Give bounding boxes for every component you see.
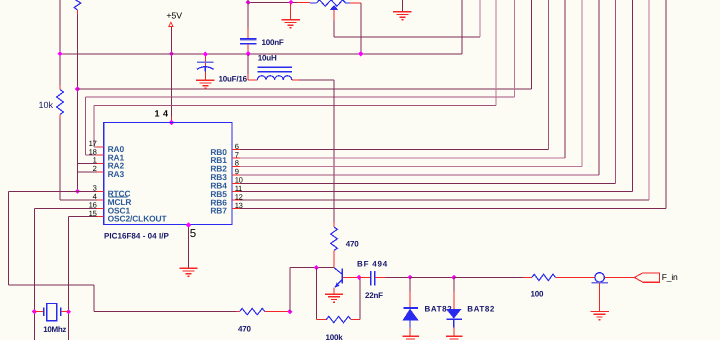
wire RB6 riser bbox=[648, 0, 650, 200]
svg-text:BAT82: BAT82 bbox=[467, 304, 495, 313]
pin 2 RA3 stub bbox=[97, 171, 104, 173]
pin 7 RB1 stub bbox=[232, 157, 240, 159]
wire top rail y=2.4 bbox=[248, 1, 297, 3]
ground for emitter bbox=[325, 293, 343, 295]
wire RB0 riser bbox=[547, 0, 549, 150]
svg-text:2: 2 bbox=[93, 164, 97, 173]
wire pin 17 horizontal bbox=[94, 146, 97, 148]
diode D1 BAT82 (cathode up) bbox=[409, 277, 411, 291]
junction top rail left end (100nF) bbox=[246, 0, 251, 5]
wire V2 x=77.5 down to RTCC row bbox=[77, 14, 79, 191]
wire RB2 horizontal bbox=[240, 165, 582, 167]
wire rail B y=89 bbox=[77, 88, 532, 90]
svg-text:10Mhz: 10Mhz bbox=[43, 325, 66, 334]
wire rail D drop to pin 17 bbox=[93, 105, 95, 147]
pin 13 RB7 stub bbox=[232, 208, 240, 210]
svg-text:BF 494: BF 494 bbox=[357, 260, 388, 269]
svg-text:22nF: 22nF bbox=[365, 291, 383, 300]
resistor R1 10k (vertical on x=60) bbox=[59, 85, 61, 90]
MCLR overline bbox=[109, 196, 128, 198]
svg-text:5: 5 bbox=[190, 228, 196, 240]
junction top rail at ground/pot bbox=[288, 0, 293, 5]
svg-text:470: 470 bbox=[346, 240, 359, 249]
wire pin 2 RA3 horizontal bbox=[78, 171, 97, 173]
junction pin 14 at IC top bbox=[169, 120, 174, 125]
wire base lead bbox=[343, 276, 359, 278]
wire rail B riser x=531.4 bbox=[530, 0, 532, 89]
ground for probe bbox=[590, 311, 608, 313]
wire RB4 horizontal bbox=[240, 182, 616, 184]
junction crystal right bbox=[66, 309, 71, 314]
junction 10uF top at rail A bbox=[203, 52, 208, 57]
wire 100k drop x=316.4 bbox=[315, 268, 317, 320]
ground for 10uF cap bbox=[196, 79, 214, 81]
potentiometer wiper arrow bbox=[330, 5, 339, 10]
wire OSC2 horizontal bbox=[69, 216, 97, 218]
wire V1 10k/MCLR vertical x=60 top segment bbox=[59, 0, 61, 85]
junction collector node x=316.4 bbox=[314, 265, 319, 270]
junction V2 x RTCC row bbox=[75, 189, 80, 194]
svg-text:BAT82: BAT82 bbox=[425, 304, 453, 313]
capacitor C2 10uF/16 electrolytic bbox=[204, 54, 206, 66]
power +5V symbol bbox=[169, 22, 173, 27]
wire RB5 riser bbox=[631, 0, 633, 192]
pin 9 RB3 stub bbox=[232, 174, 240, 176]
junction D2 top bbox=[451, 275, 456, 280]
junction D1 top bbox=[407, 275, 412, 280]
wire rail C riser x=514.7 bbox=[514, 0, 516, 97]
pin 6 RB0 stub bbox=[232, 149, 240, 151]
svg-text:+5V: +5V bbox=[166, 11, 182, 21]
junction +5V wire x rail A bbox=[169, 51, 174, 56]
wire RB6 horizontal bbox=[240, 199, 649, 201]
svg-text:100: 100 bbox=[531, 290, 544, 299]
wire pin 1 RA2 horizontal bbox=[78, 162, 97, 164]
wire RB5 horizontal bbox=[240, 191, 633, 193]
wire RB1 horizontal bbox=[240, 157, 565, 159]
junction V2 x rail B bbox=[75, 86, 80, 91]
wire OSC1 horizontal bbox=[34, 207, 96, 209]
wire OSC1 vertical x=34.4 bbox=[33, 208, 35, 340]
svg-text:470: 470 bbox=[238, 325, 251, 334]
wire OSC2 vertical x=68.5 bbox=[68, 217, 70, 340]
pin 1 RA2 stub bbox=[97, 162, 104, 164]
potentiometer P1 body bbox=[310, 2, 317, 4]
wire pin 5 to ground bbox=[188, 225, 190, 268]
wire RB3 horizontal bbox=[240, 174, 599, 176]
wire vertical x=94 down bbox=[93, 285, 95, 312]
capacitor C1 100nF bbox=[247, 0, 249, 29]
wire left vertical x=8.7 bbox=[8, 191, 10, 284]
wire center vertical x=334 down to 470 resistor bbox=[333, 80, 335, 222]
wire rail C y=96.8 bbox=[86, 96, 515, 98]
junction 470 corner bbox=[287, 309, 292, 314]
wire to D1 bbox=[385, 276, 410, 278]
pin 17 RA0 stub bbox=[97, 146, 104, 148]
wire V1 lower segment to MCLR bbox=[59, 119, 61, 200]
wire D1-D2 segment bbox=[410, 276, 454, 278]
inductor L1 10uH bbox=[257, 76, 291, 80]
resistor R3 470 horizontal bbox=[240, 308, 265, 314]
wire RB2 riser bbox=[581, 0, 583, 166]
svg-text:10uH: 10uH bbox=[258, 54, 277, 63]
wire wiper drop bbox=[333, 10, 335, 21]
wire vertical x=289.9 up to collector node bbox=[289, 268, 291, 312]
junction base node bbox=[357, 275, 362, 280]
pin 8 RB2 stub bbox=[232, 165, 240, 167]
resistor R4 470 vertical bbox=[333, 222, 335, 227]
svg-text:10uF/16: 10uF/16 bbox=[219, 75, 248, 84]
wire inductor output bbox=[292, 79, 299, 81]
wire D2 to 100 resistor bbox=[454, 276, 523, 278]
wire MCLR horizontal y=199.8 bbox=[60, 199, 97, 201]
pin 11 RB5 stub bbox=[232, 191, 240, 193]
wire horizontal y=267.6 to collector bbox=[290, 267, 334, 269]
ground for pin 5 bbox=[179, 267, 197, 269]
pin 18 RA1 stub bbox=[97, 154, 104, 156]
capacitor C3 22nF bbox=[359, 276, 370, 278]
wire RB7 horizontal bbox=[240, 208, 666, 210]
junction crystal left bbox=[32, 309, 37, 314]
resistor R6 100 bbox=[523, 276, 532, 278]
junction pot right at rail A bbox=[358, 51, 363, 56]
wire rail A +5V horizontal y=53.8 bbox=[59, 53, 462, 55]
wire probe to ground bbox=[599, 283, 601, 311]
pin 3 RTCC stub bbox=[97, 190, 104, 192]
wire rail D riser x=495.8 bbox=[495, 0, 497, 105]
wire +5V vertical to pin14 bbox=[171, 27, 173, 117]
wire pin 18 horizontal bbox=[86, 154, 97, 156]
svg-text:100k: 100k bbox=[326, 333, 344, 340]
wire wiper rail riser x=479.9 bbox=[479, 0, 481, 37]
wire RB7 riser bbox=[665, 0, 667, 209]
ground below top rail at x=290.7 bbox=[290, 2, 292, 19]
diode D2 BAT82 (cathode down) bbox=[453, 277, 455, 291]
transistor Q1 BF494 bbox=[341, 269, 343, 284]
wire horizontal y=284.8 bbox=[9, 284, 94, 286]
wire horizontal y=311.6 to 470 resistor bbox=[94, 311, 236, 313]
pin 15 OSC2/CLKOUT stub bbox=[97, 216, 104, 218]
pin 4 MCLR stub bbox=[97, 199, 104, 201]
wire rail C drop to pin 18 bbox=[85, 97, 87, 155]
resistor R5 100k bbox=[316, 319, 326, 321]
ground hanging from top edge at x=402.4 bbox=[401, 0, 403, 12]
wire probe to connector bbox=[604, 276, 634, 278]
crystal X1 10Mhz bbox=[34, 311, 43, 313]
wire pot right terminal drop to rail A bbox=[360, 3, 362, 54]
wire 100k up to base x=360 bbox=[359, 277, 361, 319]
svg-text:10k: 10k bbox=[39, 100, 54, 110]
wire rail A vertical riser x=461.9 bbox=[461, 0, 463, 54]
wire emitter to ground bbox=[333, 287, 335, 294]
wire RTCC long horizontal y=191.4 bbox=[9, 190, 97, 192]
resistor R2 partial at top edge on x=77.5 bbox=[74, 0, 81, 10]
op IC U1 PIC16F84 body bbox=[104, 123, 232, 225]
svg-text:100nF: 100nF bbox=[262, 38, 284, 47]
wire RB4 riser bbox=[615, 0, 617, 183]
svg-text:RB7: RB7 bbox=[210, 206, 227, 216]
pin 12 RB6 stub bbox=[232, 199, 240, 201]
wire RB3 riser bbox=[598, 0, 600, 175]
pin 16 OSC1 stub bbox=[97, 207, 104, 209]
svg-text:PIC16F84 - 04 I/P: PIC16F84 - 04 I/P bbox=[104, 231, 169, 240]
junction pin 5 at IC bottom bbox=[186, 223, 191, 228]
probe/test point circle bbox=[595, 273, 604, 282]
svg-text:F_in: F_in bbox=[662, 272, 678, 282]
wire rail D y=105.3 bbox=[94, 104, 496, 106]
wire RB0 horizontal bbox=[240, 149, 549, 151]
wire inductor feed from rail A x=248.2 bbox=[247, 54, 249, 74]
wire wiper rail y=36.9 bbox=[334, 36, 480, 38]
svg-text:1 4: 1 4 bbox=[155, 109, 169, 119]
svg-text:OSC2/CLKOUT: OSC2/CLKOUT bbox=[108, 214, 168, 224]
junction rail A x 10k wire bbox=[57, 51, 62, 56]
wire RB1 riser bbox=[564, 0, 566, 158]
pin 10 RB4 stub bbox=[232, 182, 240, 184]
svg-text:RA3: RA3 bbox=[108, 169, 125, 179]
junction 100nF bottom at rail A bbox=[246, 51, 251, 56]
connector F_in bbox=[634, 273, 659, 282]
